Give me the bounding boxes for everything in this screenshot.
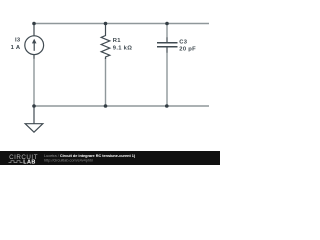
svg-text:1 A: 1 A: [11, 45, 21, 51]
current source I3 leads: [33, 24, 35, 59]
svg-text:Lucetra / Circuit de integrare: Lucetra / Circuit de integrare RC tensiu…: [44, 154, 136, 158]
svg-text:I3: I3: [15, 38, 21, 44]
node dot C3 top: [165, 22, 169, 26]
ground lead: [33, 106, 35, 124]
svg-text:http://circuitlab.com/c4v4phbl: http://circuitlab.com/c4v4phbl: [44, 159, 93, 163]
node dot R1 bottom: [104, 104, 108, 108]
wire C3 branch upper: [166, 24, 168, 39]
logo waveform: [9, 161, 23, 163]
wire left branch lower: [33, 58, 35, 106]
svg-text:9.1 kΩ: 9.1 kΩ: [113, 46, 132, 52]
resistor R1: [101, 24, 110, 60]
current source I3: [25, 36, 44, 55]
wire top rail: [34, 23, 209, 25]
node dot R1 top: [104, 22, 108, 26]
svg-text:R1: R1: [113, 38, 121, 44]
svg-text:20 pF: 20 pF: [179, 47, 196, 53]
ground: [25, 124, 43, 133]
wire R1 branch lower: [105, 58, 107, 106]
capacitor C3 plates: [157, 43, 178, 47]
node dot bottom-left: [32, 104, 36, 108]
capacitor C3 leads: [166, 38, 168, 53]
footer bar: [0, 151, 220, 165]
node dot C3 bottom: [165, 104, 169, 108]
node dot top-left: [32, 22, 36, 26]
wire C3 branch lower: [166, 52, 168, 106]
svg-text:C3: C3: [179, 39, 187, 45]
wire bottom rail: [34, 105, 209, 107]
svg-text:LAB: LAB: [23, 159, 36, 165]
